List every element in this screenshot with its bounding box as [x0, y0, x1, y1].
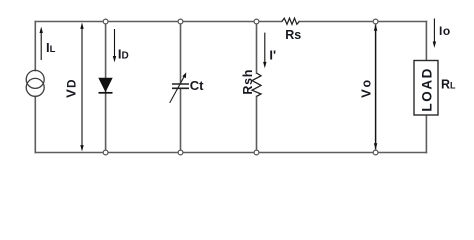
svg-text:Rs: Rs: [285, 28, 301, 42]
svg-text:RL: RL: [441, 78, 456, 92]
svg-text:LOAD: LOAD: [419, 67, 434, 112]
svg-text:Io: Io: [439, 24, 450, 38]
svg-text:VD: VD: [64, 78, 79, 98]
svg-text:I': I': [269, 47, 276, 62]
svg-text:Rsh: Rsh: [241, 69, 255, 95]
svg-text:Vo: Vo: [359, 78, 374, 98]
svg-text:Ct: Ct: [190, 78, 204, 93]
